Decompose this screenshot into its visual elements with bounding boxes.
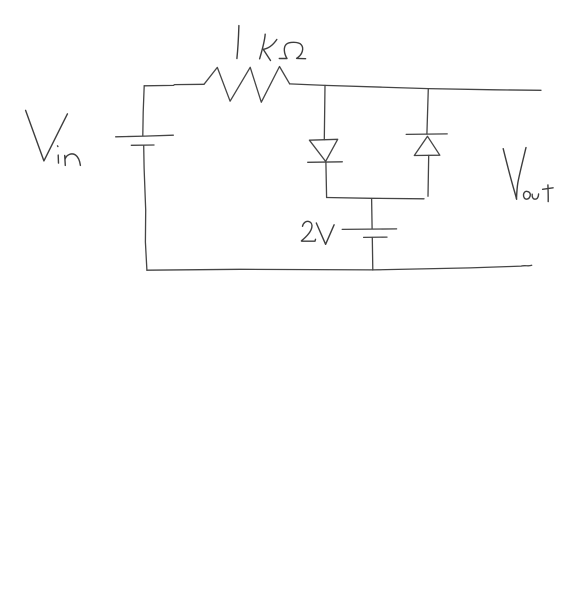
label Vin [26,110,81,165]
label 1 kΩ [237,26,306,61]
wire: battery 2V bottom lead [371,238,374,271]
resistor R1 [204,67,290,103]
wire: bottom rail [147,265,532,270]
wire: bottom connector node [327,198,424,199]
wire: left vertical upper [143,86,144,136]
battery Vin [116,135,174,145]
wire: top-left horizontal [144,84,204,86]
wire: D2 cathode drop [427,89,428,135]
wire: top rail [290,84,541,90]
wire: left vertical lower [144,146,147,270]
wire: D1 anode drop [323,85,326,139]
wire: D1 cathode down [325,162,328,197]
wire: D2 anode down [427,155,430,196]
battery V2 2V [342,229,396,238]
wire: battery 2V top lead [371,199,374,229]
diode D2 [406,134,447,156]
label Vout [503,148,553,202]
label 2V [301,221,334,244]
diode D1 [308,139,343,162]
